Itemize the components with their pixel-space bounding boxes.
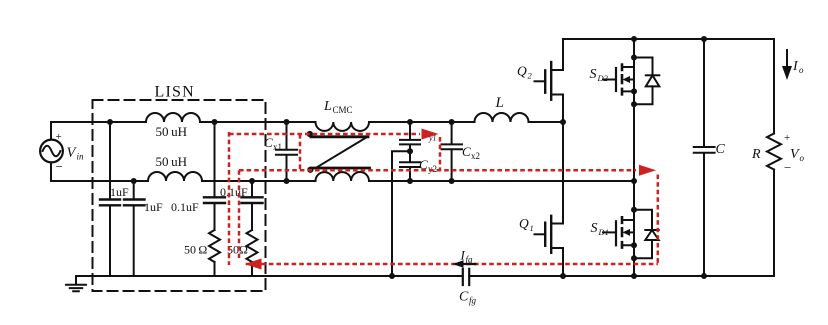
svg-text:I: I [792,59,799,74]
svg-text:fg: fg [469,296,477,306]
svg-text:fg: fg [466,255,474,265]
svg-text:C: C [716,142,726,157]
svg-text:LISN: LISN [155,84,195,101]
CMC dot bottom [307,167,313,173]
label 50ohm A [184,243,207,257]
red arrow bottom left [245,259,262,270]
capacitor 1uF second [133,181,135,276]
wire top rail mid [200,121,316,123]
label Vin [67,145,85,162]
wire top DC rail [563,38,774,40]
capacitor Cx2 [442,122,463,181]
red noise path [229,132,658,265]
svg-text:o: o [800,153,805,163]
svg-text:R: R [751,147,761,162]
label LISN [155,84,195,101]
label Vin minus [56,159,63,174]
svg-text:1uF: 1uF [110,185,129,199]
svg-text:S: S [591,221,598,236]
red arrow middle right [639,165,656,176]
mosfet SD1 [603,217,634,247]
svg-text:x2: x2 [471,151,480,161]
label Io [792,59,804,75]
wire R down [773,170,775,277]
svg-text:+: + [56,131,62,143]
node dots top DC rail [631,36,707,42]
red wire H1 upper [229,133,420,136]
inductor LISN 50uH bottom [148,172,202,181]
node SD1 source [631,242,637,248]
SD2 body arrow [623,76,631,83]
SD1 body arrow [623,229,631,236]
svg-text:1uF: 1uF [144,200,163,214]
label Cfg [459,290,477,306]
node dot Cy mid [407,148,413,154]
svg-text:in: in [77,152,85,162]
svg-text:C: C [264,135,273,150]
resistor 50ohm branch B [247,230,258,276]
svg-text:L: L [495,95,504,111]
node SD1 top [631,207,637,213]
node dots top rail [107,119,566,125]
svg-text:0.1uF: 0.1uF [171,200,199,214]
label Vo [790,147,805,163]
label 0.1uF left [171,200,199,214]
svg-text:2: 2 [528,71,533,81]
svg-text:S: S [590,67,597,82]
wire Cy midpoint to ground [392,151,410,276]
wire top rail right of CMC [369,121,475,123]
label C [716,142,726,157]
label L [495,95,504,111]
diode D1 [634,210,659,259]
ground symbol [66,276,86,291]
wire second rail right of CMC [369,180,634,182]
label 50uH bottom [156,154,188,169]
capacitor Cx1 [276,122,297,181]
arrow Ifg [459,263,477,265]
CMC coupling diagonal [316,137,367,168]
node SD2 source [631,88,637,94]
svg-text:o: o [799,65,804,75]
label 50uH top [156,124,188,139]
diode D2 [634,58,659,105]
LISN box [93,100,266,291]
label Vo minus [784,160,791,175]
svg-text:y1: y1 [428,134,437,143]
svg-text:+: + [784,132,790,144]
svg-text:x1: x1 [273,142,282,152]
node SD1 bottom [631,255,637,261]
red arrow Iy1 [422,129,439,140]
arrow Io [786,50,788,68]
CMC core bar top [311,135,368,138]
label LCMC [323,99,353,115]
inductor CMC bottom winding [316,172,369,181]
node SD2 bottom [631,101,637,107]
svg-text:−: − [784,160,791,175]
label 1uF first [110,185,129,199]
red wire V1 left outer [228,132,231,265]
capacitor 1uF first [109,122,111,276]
CMC dot top [307,131,313,137]
wire second rail left [51,180,148,182]
capacitor C output [694,39,715,276]
inductor CMC top winding [316,122,369,131]
capacitor Cy1 [400,122,420,151]
label 1uF second [144,200,163,214]
svg-text:50 Ω: 50 Ω [184,243,207,257]
red wire V7 right [657,175,660,265]
label Cy2 [419,157,437,174]
transistor Q2 [535,62,564,100]
red wire H3 bottom [246,263,658,266]
wire Q1 source down [562,248,564,276]
label R [751,147,761,162]
svg-text:50 uH: 50 uH [156,154,188,169]
svg-text:Q: Q [519,216,529,231]
AC source Vin [40,122,63,181]
resistor 50ohm branch A [209,230,220,276]
CMC core bar bottom [311,167,370,170]
label SD2 [590,67,609,83]
capacitor 0.1uF branch B [251,181,253,230]
svg-text:L: L [323,99,332,114]
svg-text:V: V [790,147,800,162]
svg-text:D1: D1 [598,227,609,237]
wire ground rail right [469,275,774,277]
svg-text:Q: Q [517,64,527,79]
wire Q2 drain up [562,39,564,70]
node dots ground rail [389,273,707,279]
label Vo plus [784,132,790,144]
label SD1 [591,221,609,237]
wire L to switch node [529,121,564,123]
red wire V3 right of Cx1 [299,134,302,170]
capacitor Cy2 [400,151,420,181]
node dots second rail [131,178,637,184]
node SD2 top [631,55,637,61]
mosfet SD2 [603,39,634,276]
wire second rail mid [202,180,316,182]
red wire H2 middle [239,169,636,172]
red wire V5 left inner [238,170,241,258]
inductor L [475,113,529,122]
svg-text:50 uH: 50 uH [156,124,188,139]
label Vin plus [56,131,62,143]
wire top rail left [51,121,146,123]
label Cx1 [264,135,282,152]
capacitor Cfg [463,269,469,285]
svg-text:D2: D2 [597,73,609,83]
svg-text:−: − [56,159,63,174]
capacitor 0.1uF branch A [214,122,216,230]
wire ground rail left [76,275,462,277]
red wire V6 after arrow Iy1 [439,137,442,170]
resistor R [767,134,781,170]
label Cx2 [462,144,480,161]
svg-text:C: C [459,290,469,305]
inductor LISN 50uH top [146,113,200,122]
label Ifg [460,248,474,265]
label 0.1uF right [220,185,248,199]
label 50ohm B [227,243,248,257]
wire right branch down [773,39,775,134]
wire switch node vertical [562,95,564,224]
transistor Q1 [535,216,564,253]
svg-text:CMC: CMC [333,105,353,115]
svg-text:1: 1 [530,223,534,233]
label Q1 [519,216,534,233]
label Q2 [517,64,533,81]
label y1 [428,134,437,143]
svg-text:C: C [462,144,471,159]
